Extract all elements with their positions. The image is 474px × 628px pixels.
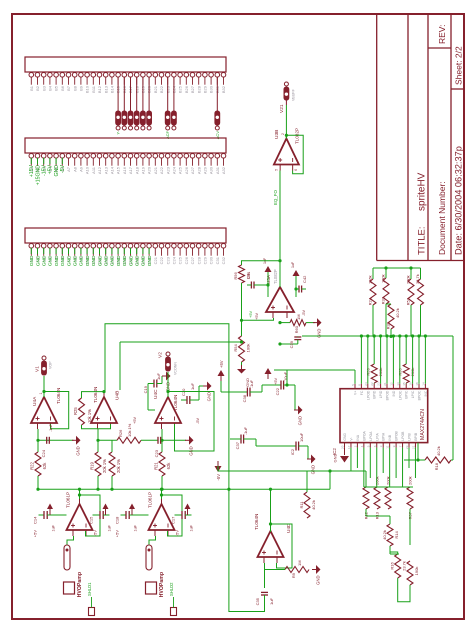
svg-text:A15: A15: [116, 166, 121, 174]
svg-text:+5V: +5V: [115, 530, 120, 538]
svg-text:9: 9: [392, 445, 396, 447]
ground sym C24: [72, 436, 81, 456]
svg-text:C23: C23: [165, 256, 170, 264]
svg-text:C26: C26: [184, 256, 189, 264]
svg-text:R24: R24: [368, 297, 373, 305]
op-amp U6 TL061P with HVOPamp port SHLD2: [115, 488, 194, 616]
resistor R55: [398, 334, 416, 383]
ground sym R60: [313, 318, 322, 338]
svg-text:B12: B12: [97, 85, 102, 93]
svg-text:62k: 62k: [166, 462, 171, 470]
svg-text:LPIA: LPIA: [375, 433, 379, 441]
svg-text:R60: R60: [294, 325, 299, 333]
svg-text:13: 13: [396, 382, 400, 386]
svg-text:B29: B29: [203, 85, 208, 93]
svg-text:40.2k: 40.2k: [311, 500, 316, 510]
op-amp U5 TL061P with HVOPamp port SHLD1: [33, 488, 112, 616]
svg-text:C39: C39: [289, 340, 294, 348]
svg-text:B6: B6: [60, 85, 65, 91]
svg-text:40.2k: 40.2k: [436, 446, 441, 456]
resistor R17: [407, 509, 419, 585]
svg-text:LPIB: LPIB: [408, 433, 412, 441]
resistor R60: [278, 314, 315, 333]
resistor R56: [233, 259, 282, 283]
svg-text:A28: A28: [196, 166, 201, 174]
svg-text:TL082P: TL082P: [295, 128, 300, 144]
svg-text:R19: R19: [90, 461, 95, 469]
svg-text:+5V: +5V: [133, 417, 137, 424]
resistor R53: [366, 334, 384, 383]
ground sym C23: [185, 436, 194, 456]
svg-text:TITLE:: TITLE:: [417, 226, 428, 255]
svg-text:LPOC: LPOC: [398, 390, 402, 400]
svg-text:C23: C23: [154, 449, 159, 457]
ground sym C20: [199, 382, 212, 402]
svg-text:-5V: -5V: [93, 530, 98, 537]
svg-text:-5V: -5V: [60, 164, 66, 173]
svg-text:12: 12: [389, 382, 393, 386]
svg-text:A13: A13: [103, 166, 108, 174]
svg-text:GND: GND: [141, 255, 147, 266]
svg-text:BPOC: BPOC: [418, 390, 422, 400]
svg-text:B10: B10: [85, 85, 90, 93]
svg-text:TL061P: TL061P: [66, 492, 71, 508]
svg-text:C25: C25: [178, 256, 183, 264]
svg-text:A9: A9: [79, 166, 84, 172]
svg-text:B9: B9: [79, 85, 84, 91]
svg-text:GND: GND: [48, 255, 54, 266]
svg-text:200k: 200k: [408, 476, 413, 485]
svg-text:R18: R18: [434, 462, 439, 470]
svg-text:10k 1%: 10k 1%: [127, 423, 132, 437]
svg-text:3: 3: [379, 445, 383, 447]
svg-text:V2: V2: [158, 352, 164, 358]
svg-text:B30: B30: [209, 85, 214, 93]
svg-text:GND: GND: [79, 255, 85, 266]
title text: [417, 172, 428, 255]
capacitor C39: [278, 336, 301, 348]
ground sym C38: [294, 406, 303, 426]
svg-text:10uF: 10uF: [299, 432, 304, 442]
svg-text:C19: C19: [143, 385, 148, 393]
svg-text:B27: B27: [190, 85, 195, 93]
capacitor C41: [246, 257, 272, 320]
svg-text:62k: 62k: [42, 462, 47, 470]
svg-text:C14: C14: [33, 516, 38, 524]
svg-text:GND: GND: [91, 255, 97, 266]
svg-text:GND: GND: [298, 416, 303, 425]
svg-text:Date: 6/30/2004 06:32:37p: Date: 6/30/2004 06:32:37p: [454, 146, 464, 255]
svg-text:A29: A29: [203, 166, 208, 174]
svg-text:+5V: +5V: [219, 360, 224, 368]
svg-text:40.2k: 40.2k: [382, 530, 387, 540]
svg-text:GND: GND: [135, 255, 141, 266]
svg-text:TL061P: TL061P: [148, 492, 153, 508]
svg-text:R11: R11: [299, 501, 304, 509]
svg-text:VCONN: VCONN: [174, 362, 178, 375]
svg-text:U4A: U4A: [32, 396, 38, 406]
svg-text:C24: C24: [172, 256, 177, 264]
wire U4D out: [269, 471, 330, 532]
svg-text:.1uF: .1uF: [249, 379, 254, 388]
svg-text:B3: B3: [41, 85, 46, 91]
svg-text:INC: INC: [424, 390, 428, 396]
svg-text:A17: A17: [128, 166, 133, 174]
svg-text:spriteHV: spriteHV: [417, 172, 428, 211]
connector J3 row C: [25, 228, 226, 266]
svg-text:R54: R54: [233, 344, 238, 352]
svg-text:LPID: LPID: [379, 390, 383, 398]
svg-text:V-: V-: [349, 437, 353, 440]
op-amp U4C: [153, 389, 181, 429]
svg-text:TL082P: TL082P: [273, 269, 278, 284]
svg-text:R9: R9: [291, 572, 296, 578]
svg-text:A12: A12: [97, 166, 102, 174]
svg-text:BPIB: BPIB: [414, 432, 418, 440]
svg-text:LPOA: LPOA: [369, 431, 373, 441]
wire U3A bias branch: [240, 310, 274, 321]
svg-text:A11: A11: [91, 166, 96, 174]
svg-text:SHLD1: SHLD1: [87, 582, 92, 596]
svg-text:HVOPamp: HVOPamp: [77, 572, 83, 597]
svg-text:1uF: 1uF: [52, 524, 56, 531]
svg-text:4: 4: [360, 445, 364, 447]
svg-text:20k 1%: 20k 1%: [116, 459, 121, 473]
svg-text:-5V: -5V: [175, 530, 180, 537]
svg-text:GND: GND: [54, 255, 60, 266]
svg-text:8: 8: [357, 384, 361, 386]
svg-text:A16: A16: [122, 166, 127, 174]
resistor R54: [233, 283, 251, 368]
svg-text:A25: A25: [178, 166, 183, 174]
svg-text:LPOD: LPOD: [366, 390, 370, 400]
svg-text:BPIA: BPIA: [382, 432, 386, 440]
+5V label U4C: [133, 417, 137, 424]
svg-text:B2: B2: [35, 85, 40, 91]
svg-text:V21: V21: [279, 104, 285, 113]
svg-text:A10: A10: [85, 166, 90, 174]
ground sym R9: [312, 565, 321, 585]
svg-text:B8: B8: [72, 85, 77, 91]
svg-text:GND: GND: [207, 392, 212, 401]
svg-text:SHLD2: SHLD2: [169, 582, 174, 596]
resistor R14: [382, 524, 399, 546]
svg-text:HVOPamp: HVOPamp: [159, 572, 165, 597]
svg-text:1M: 1M: [297, 560, 302, 566]
svg-text:U4B: U4B: [115, 391, 121, 400]
svg-text:6: 6: [373, 445, 377, 447]
svg-text:21: 21: [383, 382, 387, 386]
svg-text:20k 1%: 20k 1%: [102, 459, 107, 473]
wire MAX right bus: [302, 334, 453, 383]
svg-text:1uF: 1uF: [269, 597, 274, 604]
ground sym C37: [307, 455, 316, 475]
svg-text:196k: 196k: [368, 275, 373, 284]
svg-text:C38: C38: [242, 394, 247, 402]
svg-text:35.7k: 35.7k: [415, 274, 420, 284]
jumper V1: [35, 356, 53, 397]
svg-text:11: 11: [386, 445, 390, 448]
svg-text:22: 22: [370, 382, 374, 386]
svg-text:R16: R16: [390, 562, 395, 570]
svg-text:GND: GND: [116, 255, 122, 266]
svg-text:LPOB: LPOB: [401, 431, 405, 441]
svg-text:10k: 10k: [246, 273, 251, 279]
svg-text:.1uF: .1uF: [48, 423, 53, 432]
svg-text:GND: GND: [35, 255, 41, 266]
svg-text:TL064N: TL064N: [254, 514, 259, 530]
capacitor C38/C22: [218, 360, 356, 410]
svg-text:TL064N: TL064N: [93, 387, 98, 403]
svg-text:-5V: -5V: [196, 418, 200, 424]
wire U4B out route: [105, 324, 265, 612]
capacitor C42: [291, 261, 307, 316]
svg-text:B14: B14: [110, 85, 115, 93]
wire stage bus: [36, 488, 330, 491]
svg-text:-5V: -5V: [302, 310, 306, 316]
svg-text:B21: B21: [153, 85, 158, 93]
svg-text:+15GND: +15GND: [35, 165, 41, 186]
svg-text:C27: C27: [190, 256, 195, 264]
svg-text:GND: GND: [76, 446, 81, 455]
svg-text:C35: C35: [255, 597, 260, 605]
ground sym C19: [162, 372, 171, 392]
capacitor C20: [181, 383, 199, 404]
svg-text:BPIC: BPIC: [405, 390, 409, 398]
svg-text:BPOD: BPOD: [386, 390, 390, 400]
svg-text:C22: C22: [275, 387, 280, 395]
svg-text:GND: GND: [54, 165, 60, 177]
svg-text:200k: 200k: [406, 275, 411, 284]
svg-text:U3B: U3B: [274, 130, 280, 139]
svg-text:5: 5: [366, 445, 370, 447]
svg-text:GND: GND: [97, 255, 103, 266]
svg-text:23: 23: [405, 445, 409, 449]
svg-text:FC: FC: [360, 390, 364, 395]
svg-text:MAX274ACN: MAX274ACN: [420, 409, 426, 440]
svg-text:14: 14: [421, 382, 425, 386]
svg-text:R56: R56: [233, 272, 238, 280]
document number label: [437, 181, 447, 255]
svg-text:R21: R21: [154, 461, 159, 469]
svg-text:B1: B1: [29, 85, 34, 91]
svg-text:+5V: +5V: [273, 377, 278, 385]
svg-text:2: 2: [281, 133, 285, 135]
svg-text:C37: C37: [235, 441, 240, 449]
svg-text:R22: R22: [30, 461, 35, 469]
svg-text:GND: GND: [311, 465, 316, 474]
resistor R19: [90, 429, 118, 489]
svg-text:INA: INA: [356, 434, 360, 440]
date label: [454, 146, 464, 255]
svg-text:A7: A7: [66, 166, 71, 172]
svg-text:GND: GND: [189, 446, 194, 455]
svg-text:17: 17: [347, 445, 351, 449]
svg-text:C30: C30: [209, 256, 214, 264]
svg-text:GND: GND: [104, 255, 110, 266]
svg-text:7: 7: [399, 445, 403, 447]
svg-text:A24: A24: [172, 166, 177, 174]
IC U2 MAX274ACN: [332, 382, 428, 455]
resistor R22: [30, 439, 48, 490]
svg-text:BPID: BPID: [373, 390, 377, 398]
svg-text:GND: GND: [29, 255, 35, 266]
svg-text:VOP: VOP: [49, 361, 53, 369]
op-amp U3B: [274, 128, 300, 171]
svg-text:A18: A18: [134, 166, 139, 174]
svg-text:-5V: -5V: [216, 474, 221, 481]
ground sym R54: [237, 365, 250, 387]
op-amp U4D: [254, 514, 292, 563]
svg-text:A32: A32: [221, 166, 226, 174]
svg-text:20: 20: [341, 445, 345, 449]
resistor R16: [390, 554, 407, 578]
svg-text:TL064N: TL064N: [173, 395, 178, 411]
resistor R11: [299, 471, 316, 518]
svg-text:Document Number:: Document Number:: [437, 181, 447, 255]
svg-text:1uF: 1uF: [134, 524, 138, 531]
resistor R21: [154, 429, 172, 489]
wire U4D net vertical: [218, 469, 366, 487]
svg-text:+15V: +15V: [29, 164, 35, 177]
svg-text:C32: C32: [221, 256, 226, 264]
svg-text:.1uF: .1uF: [243, 426, 248, 435]
svg-text:18: 18: [415, 382, 419, 386]
svg-text:A31: A31: [215, 166, 220, 174]
wire MAX left nets: [351, 448, 416, 554]
svg-text:A22: A22: [159, 166, 164, 174]
svg-text:B22: B22: [159, 85, 164, 93]
svg-text:B28: B28: [196, 85, 201, 93]
svg-text:B7: B7: [66, 85, 71, 91]
svg-text:C24: C24: [41, 449, 46, 457]
svg-text:40.2k: 40.2k: [395, 308, 400, 318]
wire EQ_FO: [273, 171, 280, 288]
svg-text:C28: C28: [196, 256, 201, 264]
resistor R25: [73, 390, 111, 429]
svg-text:+5V: +5V: [33, 530, 38, 538]
svg-text:C42: C42: [302, 275, 307, 283]
svg-text:V1: V1: [35, 366, 41, 372]
svg-text:GND: GND: [343, 433, 347, 441]
svg-text:B32: B32: [221, 85, 226, 93]
svg-text:GND: GND: [110, 255, 116, 266]
svg-text:B11: B11: [91, 85, 96, 93]
svg-text:5: 5: [275, 169, 279, 171]
capacitor C19: [143, 373, 162, 410]
svg-text:IND: IND: [392, 390, 396, 396]
svg-text:21: 21: [411, 445, 415, 449]
resistor R9: [265, 560, 310, 578]
svg-text:A21: A21: [153, 166, 158, 174]
wire U4C feedback: [166, 390, 214, 451]
svg-text:GND: GND: [122, 255, 128, 266]
resistor block R24/R32/R31/R52: [368, 266, 424, 338]
svg-text:R25: R25: [73, 407, 78, 415]
svg-text:C31: C31: [215, 256, 220, 264]
svg-text:1: 1: [39, 393, 43, 395]
svg-text:B25: B25: [178, 85, 183, 93]
op-amp U4A: [31, 388, 61, 429]
svg-text:23.7k: 23.7k: [402, 561, 407, 571]
svg-text:GND: GND: [73, 255, 79, 266]
svg-text:GND: GND: [147, 255, 153, 266]
wire R16/R17 join: [390, 546, 410, 602]
svg-text:B13: B13: [103, 85, 108, 93]
capacitor C23: [141, 437, 186, 458]
sheet label: [454, 46, 464, 85]
svg-text:C17: C17: [171, 516, 176, 524]
svg-text:R14: R14: [394, 531, 399, 539]
svg-text:C18: C18: [115, 516, 120, 524]
capacitor C35: [255, 570, 274, 606]
svg-text:GND: GND: [316, 576, 321, 585]
svg-text:-15V: -15V: [42, 164, 48, 175]
svg-text:EQ_FO: EQ_FO: [273, 190, 278, 205]
svg-text:1uF: 1uF: [291, 261, 295, 268]
svg-text:B4: B4: [48, 85, 53, 91]
svg-text:A27: A27: [190, 166, 195, 174]
svg-text:100k: 100k: [381, 274, 386, 283]
resistor R18: [404, 336, 453, 470]
connector J2 row A: [25, 138, 226, 185]
svg-text:C29: C29: [203, 256, 208, 264]
svg-text:B26: B26: [184, 85, 189, 93]
svg-text:A8: A8: [72, 166, 77, 172]
op-amp U4B: [91, 387, 121, 429]
svg-text:GND: GND: [85, 255, 91, 266]
svg-text:BPOA: BPOA: [362, 430, 366, 440]
svg-text:100k: 100k: [246, 344, 251, 353]
svg-text:1M: 1M: [296, 314, 301, 320]
svg-text:IC2: IC2: [290, 448, 295, 455]
svg-text:10k 1%: 10k 1%: [87, 409, 92, 423]
resistor bank R12/R13/R57: [363, 476, 413, 519]
wire aux net: [120, 340, 243, 390]
svg-text:1uF: 1uF: [190, 524, 194, 531]
svg-text:2: 2: [353, 445, 357, 447]
svg-text:Y-: Y-: [116, 130, 121, 134]
svg-text:5: 5: [351, 384, 355, 386]
svg-text:+5V: +5V: [248, 310, 253, 318]
title block frame: [377, 14, 464, 261]
svg-text:6: 6: [294, 169, 298, 171]
svg-text:C15: C15: [89, 516, 94, 524]
wire U4D feedback: [269, 522, 292, 568]
wire U4A feedback: [42, 390, 68, 429]
svg-text:B5: B5: [54, 85, 59, 91]
jumper V21: [279, 82, 296, 139]
svg-text:GND: GND: [60, 255, 66, 266]
svg-text:16: 16: [409, 382, 413, 386]
svg-text:Sheet: 2/2: Sheet: 2/2: [454, 46, 464, 85]
svg-text:A20: A20: [147, 166, 152, 174]
svg-text:TL064N: TL064N: [56, 388, 61, 404]
resistor R20: [109, 440, 121, 489]
op-amp U3A: [266, 269, 294, 318]
svg-text:23: 23: [377, 382, 381, 386]
svg-text:1uF: 1uF: [156, 373, 161, 380]
svg-text:15: 15: [402, 382, 406, 386]
svg-text:GND: GND: [42, 255, 48, 266]
svg-text:REV:: REV:: [437, 24, 447, 44]
svg-text:R26: R26: [118, 429, 123, 437]
svg-text:BPOB: BPOB: [395, 430, 399, 440]
svg-text:A19: A19: [141, 166, 146, 174]
svg-text:1uF: 1uF: [190, 383, 195, 390]
svg-text:LPIC: LPIC: [411, 390, 415, 398]
svg-text:V+: V+: [354, 391, 358, 395]
